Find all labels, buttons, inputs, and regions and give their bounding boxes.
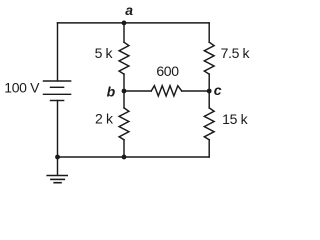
svg-text:a: a bbox=[125, 2, 133, 18]
wire left bottom (battery - to bottom rail) bbox=[57, 101, 59, 158]
wire 2k to bottom rail bbox=[123, 140, 125, 157]
node c junction dot bbox=[207, 89, 212, 94]
wire node b to 600 bbox=[124, 90, 151, 92]
battery V1 100 V bbox=[44, 81, 71, 101]
resistor R4 600 bbox=[151, 86, 182, 96]
wire 15k to bottom rail bbox=[208, 140, 210, 157]
wire 600 to node c bbox=[182, 90, 210, 92]
svg-text:b: b bbox=[107, 84, 116, 100]
wire left top (battery + to top rail) bbox=[57, 23, 59, 81]
svg-text:c: c bbox=[214, 82, 222, 98]
resistor R2 7.5 k bbox=[204, 42, 214, 74]
wire node c to 15k bbox=[208, 91, 210, 108]
svg-text:2 k: 2 k bbox=[95, 111, 114, 127]
wire node b to 2k bbox=[123, 91, 125, 108]
svg-text:7.5 k: 7.5 k bbox=[221, 45, 251, 61]
node b junction dot bbox=[122, 89, 127, 94]
node a junction dot bbox=[122, 21, 127, 26]
wire node a to 5k bbox=[123, 23, 125, 42]
svg-text:600: 600 bbox=[156, 63, 179, 79]
ground bbox=[47, 157, 67, 183]
wire 7.5k to node c bbox=[208, 74, 210, 91]
junction dot bottom middle bbox=[122, 155, 127, 160]
svg-text:15 k: 15 k bbox=[222, 111, 248, 127]
wire top (node a rail) bbox=[58, 22, 210, 24]
svg-text:5 k: 5 k bbox=[95, 45, 114, 61]
junction dot bottom left (ground) bbox=[55, 155, 60, 160]
resistor R5 15 k bbox=[204, 108, 214, 140]
wire bottom rail bbox=[58, 156, 210, 158]
svg-text:100 V: 100 V bbox=[4, 80, 40, 96]
resistor R3 2 k bbox=[119, 108, 129, 140]
wire 5k to node b bbox=[123, 74, 125, 91]
resistor R1 5 k bbox=[119, 42, 129, 74]
wire top rail to 7.5k bbox=[208, 23, 210, 42]
